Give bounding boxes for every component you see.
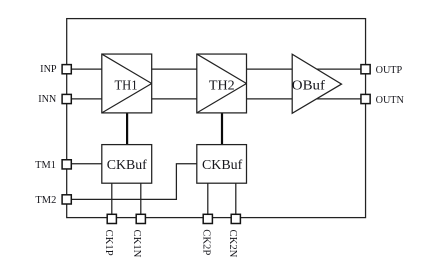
- wire TH2 to OUTP through OBuf: [247, 68, 366, 70]
- track-and-hold TH2: [197, 54, 247, 113]
- svg-text:INN: INN: [38, 94, 57, 105]
- outer boundary box: [67, 19, 366, 218]
- port CK2N: [231, 214, 240, 223]
- clock buffer CKBuf1: [102, 145, 152, 184]
- port OUTN: [361, 94, 370, 103]
- svg-text:CKBuf: CKBuf: [107, 157, 147, 172]
- wire CKBuf2 to CK2N: [235, 183, 237, 217]
- wire CKBuf2 to CK2P: [207, 183, 209, 217]
- svg-text:OUTN: OUTN: [376, 95, 405, 106]
- wire CKBuf1 to CK1P: [111, 183, 113, 217]
- svg-text:CK2P: CK2P: [201, 229, 213, 255]
- wire TH1 to TH2 negative: [152, 98, 197, 100]
- svg-text:TH1: TH1: [115, 78, 138, 93]
- svg-text:OBuf: OBuf: [292, 78, 326, 93]
- port CK2P: [203, 214, 212, 223]
- clock wire CKBuf2 to TH2: [221, 113, 223, 145]
- port INP: [62, 65, 71, 74]
- wire TM1 to CKBuf1: [67, 163, 102, 165]
- wire INP to TH1: [67, 68, 102, 70]
- port TM2: [62, 195, 71, 204]
- clock buffer CKBuf2: [197, 145, 247, 184]
- track-and-hold TH1: [102, 54, 152, 113]
- svg-text:CK1P: CK1P: [103, 230, 115, 256]
- port OUTP: [361, 65, 370, 74]
- svg-text:TH2: TH2: [209, 78, 235, 93]
- output buffer OBuf: [292, 54, 342, 113]
- svg-text:TM2: TM2: [35, 195, 56, 206]
- wire TH1 to TH2 positive: [152, 68, 197, 70]
- svg-text:CK1N: CK1N: [131, 230, 143, 258]
- wire TM2 to CKBuf2: [67, 164, 197, 200]
- wire CKBuf1 to CK1N: [140, 183, 142, 217]
- svg-text:INP: INP: [40, 64, 57, 75]
- svg-text:OUTP: OUTP: [376, 65, 403, 76]
- port INN: [62, 94, 71, 103]
- wire TH2 to OUTN through OBuf: [247, 98, 366, 100]
- svg-text:CK2N: CK2N: [227, 230, 239, 258]
- clock wire CKBuf1 to TH1: [126, 113, 128, 145]
- port CK1N: [136, 214, 145, 223]
- svg-text:CKBuf: CKBuf: [202, 157, 243, 172]
- port TM1: [62, 160, 71, 169]
- wire INN to TH1: [67, 98, 102, 100]
- svg-text:TM1: TM1: [35, 160, 56, 171]
- port CK1P: [107, 214, 116, 223]
